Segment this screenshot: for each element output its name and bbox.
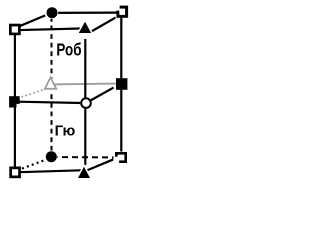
svg-text:Гю: Гю <box>55 122 76 139</box>
svg-text:Роб: Роб <box>56 41 82 60</box>
